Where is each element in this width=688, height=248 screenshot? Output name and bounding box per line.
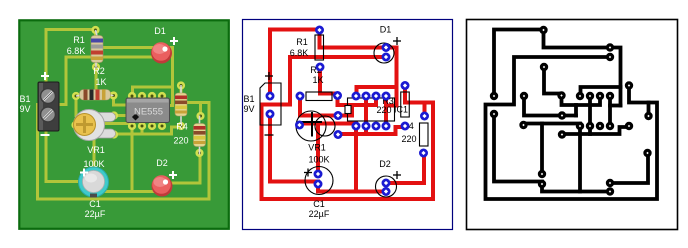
svg-text:D1: D1 (380, 25, 392, 35)
svg-text:9V: 9V (19, 104, 30, 114)
svg-text:100K: 100K (308, 155, 329, 165)
svg-text:D2: D2 (379, 159, 391, 169)
svg-text:22µF: 22µF (309, 209, 330, 219)
svg-text:22µF: 22µF (85, 209, 106, 219)
svg-text:VR1: VR1 (308, 143, 326, 153)
svg-text:D1: D1 (154, 26, 166, 36)
svg-text:100K: 100K (83, 159, 104, 169)
svg-text:VR1: VR1 (87, 145, 105, 155)
svg-text:220: 220 (401, 134, 416, 144)
svg-text:R2: R2 (93, 66, 105, 76)
svg-text:9V: 9V (243, 104, 254, 114)
svg-text:B1: B1 (19, 94, 30, 104)
svg-text:1K: 1K (95, 77, 106, 87)
svg-text:C1: C1 (313, 199, 325, 209)
svg-text:R4: R4 (176, 122, 188, 132)
svg-text:6.8K: 6.8K (290, 48, 309, 58)
svg-text:IC1: IC1 (394, 105, 408, 115)
svg-text:1K: 1K (312, 75, 323, 85)
svg-text:R1: R1 (73, 35, 85, 45)
svg-text:6.8K: 6.8K (67, 46, 86, 56)
svg-text:D2: D2 (156, 158, 168, 168)
svg-text:220: 220 (173, 136, 188, 146)
svg-text:C1: C1 (89, 199, 101, 209)
svg-text:B1: B1 (243, 94, 254, 104)
svg-text:220: 220 (376, 105, 391, 115)
svg-text:R1: R1 (296, 37, 308, 47)
svg-text:NE555: NE555 (134, 107, 163, 118)
